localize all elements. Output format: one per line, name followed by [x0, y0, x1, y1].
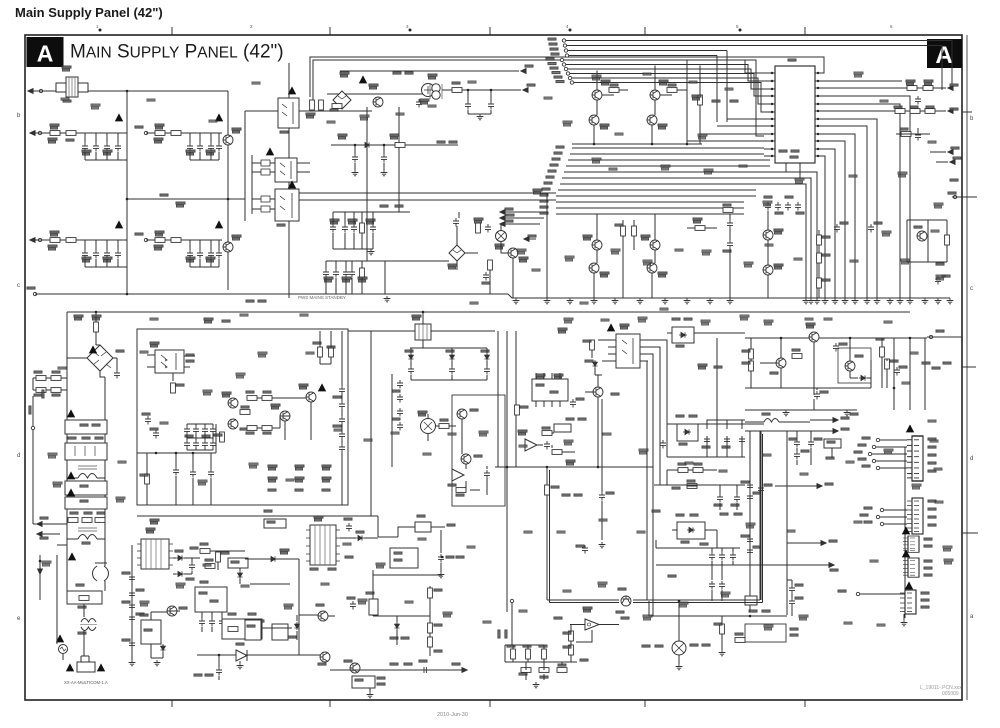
capacitor C102: [93, 143, 99, 152]
block H-low: [745, 596, 757, 605]
resistor R208: [476, 223, 481, 233]
capacitor C115: [208, 250, 214, 259]
wire J row615: [373, 615, 430, 617]
capacitor C635: [484, 470, 490, 479]
wire fan pin r4: [823, 119, 877, 298]
wire R304 drop: [623, 220, 634, 298]
node PD3 row2b terminal: [144, 238, 147, 241]
transistor Q601: [167, 606, 177, 616]
rectifier D203 round: [422, 84, 435, 97]
resistor R714: [428, 623, 433, 633]
regulator VR301: [496, 231, 507, 242]
label D622: [676, 415, 684, 417]
wire harness line 2: [554, 152, 562, 154]
junction: [749, 615, 752, 618]
node ACN2 arrow left: [37, 532, 42, 537]
label RT601: [76, 584, 84, 586]
capacitor C618: [153, 430, 159, 439]
warning triangle: [66, 663, 74, 671]
svg-text:b: b: [970, 116, 974, 122]
capacitor C636: [346, 523, 352, 532]
resistor R633: [542, 431, 552, 436]
wire snubber: [320, 331, 331, 364]
wire mid bus H: [745, 387, 871, 389]
wire harness line 11: [540, 206, 548, 208]
wire rail X761: [760, 431, 762, 600]
svg-text:005009: 005009: [942, 691, 959, 697]
label AMP_PM: [642, 645, 650, 647]
transistor Q101 mosfet: [223, 135, 233, 145]
wire row1b: [146, 132, 222, 134]
wire U604 net: [428, 414, 456, 441]
wire riser MGB drain: [366, 107, 368, 261]
wire bottom bus: [35, 293, 508, 295]
wire T604 taps: [423, 331, 495, 348]
diode D602: [160, 644, 165, 652]
transistor Q102 mosfet: [223, 242, 233, 252]
transistor Q612: [350, 663, 360, 673]
ground: [901, 620, 908, 626]
svg-text:d: d: [970, 456, 973, 462]
svg-text:1: 1: [96, 24, 99, 29]
capacitor C720: [421, 667, 430, 673]
capacitor C405: [935, 276, 941, 285]
label C604: [80, 485, 88, 487]
inductor L604 block: [415, 515, 431, 532]
resistor R632: [515, 405, 520, 415]
svg-text:6: 6: [890, 24, 893, 29]
wire rail X228: [227, 91, 229, 290]
ground: [707, 298, 714, 304]
diode D204: [363, 142, 371, 147]
wire bundle 5: [572, 78, 764, 104]
capacitor C414: [795, 202, 801, 211]
shunt reg U609: [352, 676, 375, 688]
junction: [126, 90, 129, 93]
capacitor C213: [349, 269, 355, 278]
wire fan pin r8: [823, 149, 835, 298]
label R712: [366, 592, 374, 594]
transformer T601 standby: [137, 539, 173, 569]
label R636: [562, 494, 570, 496]
wire aux bus G: [656, 540, 745, 565]
node +12VMBT: [856, 592, 859, 595]
pin stubs DT601: [608, 340, 648, 361]
transistor Q304: [647, 115, 657, 125]
label R201: [306, 113, 315, 118]
capacitor C106: [197, 143, 203, 152]
wire row3 right: [896, 128, 930, 134]
warning triangle: [359, 75, 367, 83]
choke L603 pair: [80, 619, 97, 631]
transistor Q603: [228, 398, 238, 408]
block C638 start box: [390, 548, 418, 568]
wire right cluster: [425, 212, 490, 294]
connector P705: [900, 590, 916, 614]
node +5V_AUX stub: [787, 542, 824, 544]
transistor Q303: [650, 90, 660, 100]
wire C717 drops: [712, 565, 722, 601]
wire Q602: [585, 375, 598, 467]
wire ANT_5V row: [890, 87, 946, 89]
wire lamp drop: [678, 601, 680, 641]
optocoupler DT601: [616, 334, 640, 368]
transistor Q607 mosfet: [461, 454, 471, 464]
ground: [567, 298, 574, 304]
transformer T602 main: [306, 525, 340, 565]
capacitor ladder C619: [184, 426, 190, 435]
wire R408 chain: [818, 230, 820, 298]
label AC_IN vertical: [29, 406, 31, 414]
svg-text:PWS MAINS STANDBY: PWS MAINS STANDBY: [298, 295, 346, 300]
resistor R106: [66, 238, 76, 243]
wire rail X787: [786, 431, 788, 615]
wire ladder rails: [187, 424, 213, 450]
transistor Q703: [845, 361, 855, 371]
wire connector spine: [904, 447, 906, 618]
wire bus continue: [633, 600, 763, 603]
label T602 notes: [310, 568, 318, 570]
transistor Q604 mosfet: [306, 392, 316, 402]
wire nest 4: [647, 361, 648, 600]
optocoupler U601: [155, 350, 184, 373]
label DB201: [340, 72, 349, 77]
label L602: [82, 542, 90, 544]
capacitor C704: [794, 439, 800, 448]
transistor Q308: [650, 240, 660, 250]
box outline H bottom: [745, 624, 786, 642]
Y-cap block C604: [65, 481, 107, 495]
wire U702 out: [599, 624, 619, 626]
wire bridge bus: [327, 93, 430, 95]
node bundle pin 3: [564, 67, 567, 70]
ground: [612, 298, 619, 304]
labels bus2 parts: [324, 277, 333, 282]
wire cap bus row2: [85, 240, 127, 267]
pin stubs U606: [536, 373, 560, 407]
label C302: [723, 250, 731, 252]
capacitor C702: [833, 343, 839, 352]
label cluster bottom: [936, 263, 944, 265]
wire rail X105: [104, 377, 106, 566]
label DB202: [448, 264, 457, 269]
label U602: [140, 614, 148, 616]
resistor R401: [907, 86, 917, 91]
resistor R410: [817, 278, 822, 288]
resistor R402: [923, 86, 933, 91]
choke L601: [67, 466, 105, 478]
wire top bus H: [745, 337, 927, 339]
wire cap bus row1: [85, 133, 127, 160]
label P702 pins: [928, 500, 936, 502]
wire rail X289: [288, 63, 290, 298]
pin stubs U1 right: [815, 73, 823, 156]
wire bus2 drops: [326, 261, 385, 294]
capacitor C211: [333, 269, 339, 278]
transformer T604: [415, 324, 431, 340]
wire VR to Q: [501, 224, 513, 298]
wire U603 bottom: [202, 612, 222, 632]
capacitor C214: [453, 218, 459, 227]
label MGB-PGA-1: [393, 72, 401, 74]
wire fan pin r2: [823, 104, 900, 298]
label U702: [583, 607, 592, 612]
label D623: [676, 514, 684, 516]
wire bridge to rails: [67, 358, 117, 377]
block U608: [554, 424, 571, 432]
resistor R101: [50, 131, 60, 136]
ground fan bus: [803, 298, 810, 304]
resistor R105: [50, 238, 60, 243]
node ACL input terminal: [28, 89, 33, 94]
label U605: [448, 484, 456, 486]
capacitor C617: [145, 416, 151, 425]
wire X602 drop: [601, 399, 603, 540]
resistor R209: [488, 260, 493, 270]
wire J out row: [330, 669, 465, 671]
label R/UF row: [749, 610, 757, 612]
wire D623 stubs: [672, 530, 717, 548]
wire riser X371: [370, 331, 372, 516]
node +12 TUN stub: [524, 237, 529, 242]
label BL_ON vertical: [498, 630, 500, 638]
wire rail X717: [716, 56, 718, 123]
resistor R606: [205, 564, 215, 569]
capacitor C207: [342, 224, 348, 233]
wire R704: [814, 338, 887, 410]
label T602: [314, 516, 323, 521]
wire drop to y616: [649, 601, 745, 616]
wire C713 col: [787, 580, 792, 616]
wire BL_ON drop: [505, 603, 512, 662]
label vertical rails: [712, 100, 720, 102]
svg-text:5: 5: [736, 24, 739, 29]
resistor R202: [319, 100, 324, 110]
label VR301: [495, 244, 504, 249]
svg-text:2010-Jun-30: 2010-Jun-30: [437, 712, 468, 718]
capacitor C112: [115, 250, 121, 259]
capacitor C652: [730, 552, 736, 561]
label REM row: [720, 513, 728, 515]
label Q608: [618, 588, 626, 590]
wire rail X127: [126, 91, 128, 294]
capacitor C411 row: [765, 202, 771, 211]
wire rail X894: [893, 338, 895, 410]
thermistor RT602: [59, 645, 68, 654]
label U603: [200, 581, 208, 583]
junction: [126, 198, 129, 201]
svg-text:c: c: [17, 283, 20, 289]
wire rail X245: [244, 111, 246, 221]
capacitor C642: [544, 441, 550, 450]
wire cap bus row1b: [190, 133, 219, 160]
warning triangle: [906, 424, 914, 432]
transistor Q702: [776, 358, 786, 368]
junction: [354, 144, 357, 147]
diode D601b: [176, 571, 184, 576]
wire J net1: [261, 615, 335, 640]
svg-text:A: A: [37, 41, 54, 67]
junction: [506, 466, 509, 469]
warning triangle: [318, 383, 326, 391]
wire zener: [239, 568, 241, 584]
labels sec bus: [405, 350, 413, 352]
wire rail X750: [749, 431, 751, 612]
label low bus: [566, 460, 575, 465]
op-amp U1 controller IC: [775, 66, 815, 163]
warning triangle: [902, 549, 910, 557]
warning triangle: [67, 471, 75, 479]
capacitor C404: [868, 224, 874, 233]
dual diode D623: [677, 522, 705, 539]
resistor R403: [895, 109, 905, 114]
warning triangle: [215, 220, 223, 228]
bottom ruler ticks: [172, 700, 805, 707]
label ladder: [185, 435, 193, 437]
label +START: [447, 524, 455, 526]
ground: [684, 298, 691, 304]
capacitor C113: [187, 250, 193, 259]
wire bundle 4: [570, 74, 764, 97]
node RS232 stub: [948, 150, 953, 155]
warning triangle: [115, 220, 123, 228]
capacitor C622: [190, 469, 196, 478]
transistor Q401: [763, 230, 773, 240]
capacitor C615: [219, 618, 225, 627]
node GND terminal bottom: [33, 292, 36, 295]
capacitor C647: [739, 436, 745, 445]
wire nest 3: [648, 354, 653, 616]
resistor R207: [360, 268, 365, 278]
capacitor C212: [343, 269, 349, 278]
capacitor C403: [834, 224, 840, 233]
label T-note: [698, 364, 707, 369]
node BL_ON terminal: [510, 599, 513, 602]
resistor R631: [590, 340, 595, 350]
wire C648 drops: [720, 485, 737, 510]
transistor Q701: [809, 332, 819, 342]
resistor R705: [885, 359, 890, 369]
wire fuse to bridge: [96, 318, 100, 345]
node +12 MAIN stub: [500, 216, 505, 221]
label block: [204, 318, 213, 323]
label 10P header: [533, 189, 542, 194]
label below box: [264, 510, 272, 512]
resistor R706: [526, 649, 531, 659]
resistor R301: [609, 88, 619, 93]
resistor R608: [251, 620, 256, 630]
junction: [678, 600, 681, 603]
wire right edge stub: [962, 366, 976, 368]
wire L701 bus: [745, 421, 810, 423]
label D620: [672, 318, 680, 320]
ground: [783, 410, 790, 416]
capacitor C216: [483, 272, 489, 281]
warning triangle: [115, 113, 123, 121]
capacitor C612: [189, 562, 195, 571]
label column: [333, 396, 341, 398]
wire U702 in: [570, 624, 585, 626]
wire R710: [721, 616, 723, 650]
resistor R637: [678, 468, 688, 473]
wire pin ANT row: [823, 87, 890, 89]
wire Q702 net: [751, 338, 781, 388]
svg-text:4: 4: [566, 24, 569, 29]
wire Q303 connections: [652, 66, 687, 145]
transistor Q602: [593, 387, 603, 397]
wire bundle 6: [574, 83, 764, 113]
wire grid: [33, 378, 67, 390]
node bundle pin 4: [566, 72, 569, 75]
capacitor C701: [814, 391, 820, 400]
op-amp U607: [525, 439, 537, 451]
resistor R613: [240, 410, 250, 415]
transformer T603 winding: [93, 563, 109, 591]
transistor Q301: [592, 90, 602, 100]
wire Q703 net: [850, 338, 871, 388]
wire drop terminal: [39, 555, 41, 600]
label snubber: [228, 613, 236, 615]
resistor R638: [693, 468, 703, 473]
capacitor C706: [808, 439, 814, 448]
label P702 harness: [864, 507, 872, 509]
wire R708 chain: [571, 625, 592, 663]
pin pair D202: [261, 196, 270, 212]
transistor Q613: [228, 419, 238, 429]
resistor R203: [332, 104, 342, 109]
choke L602: [67, 528, 105, 539]
resistor R408: [817, 235, 822, 245]
wire top harness t4: [551, 53, 559, 55]
label AUDIO_GND left: [668, 575, 676, 577]
capacitor col C634: [397, 380, 403, 389]
transistor Q402: [763, 265, 773, 275]
node VCC row2: [948, 109, 953, 114]
capacitor C606: [114, 370, 120, 379]
node CN_STBY arrow: [523, 88, 528, 93]
label C605: [80, 500, 88, 502]
transistor Q309: [647, 263, 657, 273]
resistor R605: [216, 552, 221, 562]
capacitor C650: [709, 552, 715, 561]
connector P704: [903, 558, 919, 577]
resistor R614: [145, 474, 150, 484]
junction: [155, 452, 158, 455]
resistor R702: [749, 361, 754, 371]
node ACN row1 terminal: [30, 131, 35, 136]
label L603: [78, 632, 86, 634]
capacitor C109: [82, 250, 88, 259]
label +5V_AUX left: [652, 510, 660, 512]
Y-cap block C605: [65, 497, 107, 509]
wire filter net: [505, 645, 562, 680]
wire fan pin r5: [823, 126, 867, 298]
resistor R108: [171, 238, 181, 243]
ground: [129, 660, 136, 666]
op-amp U605: [452, 469, 464, 481]
label U606: [536, 374, 545, 379]
label L101: [62, 66, 71, 71]
wire right cluster frame: [907, 220, 947, 262]
capacitor C717: [709, 581, 715, 590]
label table rows: [268, 465, 277, 470]
node CVT_AUX stub: [775, 485, 820, 487]
fuse F702 round: [672, 641, 686, 655]
resistor R612: [220, 432, 225, 442]
capacitor C713: [789, 585, 795, 594]
wire row2b: [146, 239, 222, 241]
wire opto leads: [147, 355, 195, 381]
